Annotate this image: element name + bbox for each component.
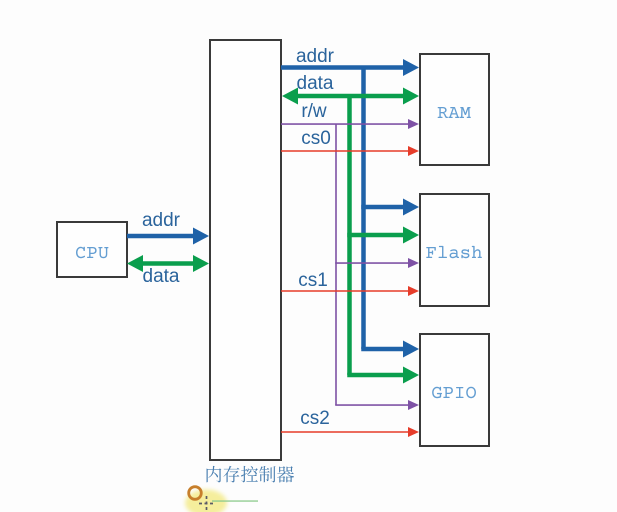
wire data CPU-controller bidirectional [127,255,209,272]
wire r/w branch to Flash [335,258,419,268]
wire cs1 controller to Flash [281,286,419,296]
wire data branch to Flash [347,227,419,244]
svg-text:r/w: r/w [301,101,327,122]
Flash box [420,194,489,306]
svg-text:cs2: cs2 [300,408,330,429]
svg-text:addr: addr [296,46,335,67]
memory controller box [210,40,281,460]
GPIO box [420,334,489,446]
wire data elbow to GPIO [347,367,419,384]
cursor crosshair [199,496,214,511]
wire r/w elbow to GPIO [335,400,419,410]
cursor ring [189,487,202,500]
wire addr CPU to controller [127,228,209,245]
RAM box [420,54,489,165]
wire addr controller to RAM [281,59,419,76]
wire r/w controller to RAM [281,119,419,129]
wire addr vertical trunk [361,68,366,350]
svg-text:cs0: cs0 [301,128,331,149]
svg-text:cs1: cs1 [298,270,328,291]
wire cs0 controller to RAM [281,146,419,156]
wire data vertical trunk [347,96,352,375]
wire addr elbow to GPIO [361,341,419,358]
svg-text:addr: addr [142,210,181,231]
wire addr branch to Flash [361,199,419,216]
cursor green underline [212,500,258,501]
cursor highlight blob [185,490,227,512]
svg-text:data: data [297,73,334,94]
wire data controller-RAM bidirectional [282,88,419,105]
svg-text:data: data [143,266,180,287]
wire cs2 controller to GPIO [281,427,419,437]
label 内存控制器 [207,466,295,483]
CPU box [57,222,127,277]
wire r/w vertical trunk [335,124,337,405]
